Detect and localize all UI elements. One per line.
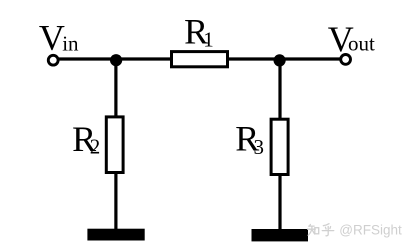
svg-text:out: out — [348, 32, 375, 56]
svg-text:@RFSight: @RFSight — [339, 223, 402, 238]
svg-text:1: 1 — [203, 27, 214, 51]
svg-text:in: in — [62, 32, 79, 56]
svg-text:3: 3 — [254, 135, 265, 159]
svg-text:V: V — [39, 18, 65, 58]
svg-text:2: 2 — [90, 134, 101, 158]
